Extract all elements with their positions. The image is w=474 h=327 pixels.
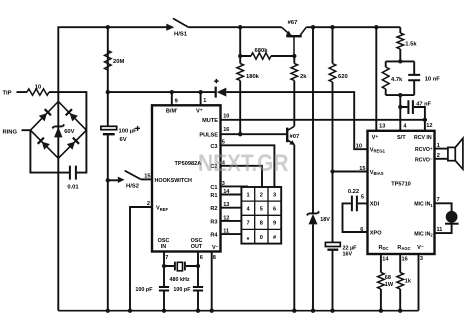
wire C1 column	[221, 185, 249, 187]
svg-text:480 kHz: 480 kHz	[169, 277, 189, 283]
resistor 620	[329, 64, 336, 82]
junction crystal left	[162, 264, 166, 268]
svg-text:XDI: XDI	[370, 202, 380, 208]
wire MIC IN loop	[435, 203, 452, 233]
wire PULSE net (U1 pin16 to Q07 base)	[221, 133, 287, 135]
junction ground rail / VREF branch	[128, 309, 132, 313]
op-amp U1 TP50982A dialer IC body	[152, 105, 221, 251]
svg-text:6: 6	[200, 255, 203, 261]
wire bridge bottom to ground rail	[57, 158, 59, 310]
junction S/T node / 47nF	[398, 105, 402, 109]
ground rail (V- bus)	[58, 310, 418, 312]
junction PULSE / 180k branch	[238, 132, 242, 136]
capacitor 10nF	[408, 75, 420, 80]
junction ground rail / OSC IN branch	[162, 309, 166, 313]
svg-text:180k: 180k	[246, 74, 260, 80]
svg-text:TP5710: TP5710	[391, 181, 411, 187]
svg-text:100 µF: 100 µF	[119, 128, 138, 134]
capacitor 100pF left	[159, 287, 169, 291]
junction S/T box top center	[398, 59, 402, 63]
junction ground rail / U1 V- pin8	[210, 309, 214, 313]
bridge diode upper-right (TIP to top)	[70, 113, 78, 121]
svg-text:OSC: OSC	[191, 238, 203, 244]
capacitor C 0.01	[70, 166, 76, 180]
svg-text:14: 14	[382, 257, 389, 263]
wire R2 row	[221, 207, 242, 209]
svg-text:16: 16	[223, 127, 229, 133]
wire VBIAS stub	[333, 171, 368, 173]
capacitor 100pF right	[193, 287, 203, 291]
svg-text:18V: 18V	[320, 217, 330, 223]
wire 2k branch vertical	[293, 56, 295, 126]
junction S/T box bottom center	[398, 93, 402, 97]
svg-text:PULSE: PULSE	[199, 132, 218, 138]
svg-text:V⁻: V⁻	[212, 245, 219, 251]
wire U1 pin 1 stub	[200, 92, 202, 105]
svg-text:H/S2: H/S2	[126, 184, 139, 190]
junction top rail / 18V branch	[311, 25, 315, 29]
svg-text:6: 6	[273, 207, 276, 213]
bridge rectifier frame	[30, 102, 86, 159]
capacitor 0.22 + XDI/XPO loop	[343, 203, 368, 232]
svg-text:5: 5	[361, 195, 364, 201]
svg-text:3: 3	[273, 192, 276, 198]
wire top rail right (Q67 collector to 1.5k)	[306, 26, 400, 28]
wire U2 pin 13 branch	[375, 27, 377, 131]
svg-text:47 nF: 47 nF	[416, 102, 431, 108]
svg-text:0.01: 0.01	[67, 185, 79, 191]
transistor Q07 (#07 pulse driver)	[286, 128, 288, 143]
svg-text:15: 15	[144, 173, 150, 179]
svg-text:RING: RING	[3, 130, 18, 136]
svg-text:RCVO⁺: RCVO⁺	[415, 147, 433, 153]
junction Q67 base / 2k top	[292, 54, 296, 58]
svg-text:RCVO⁻: RCVO⁻	[415, 157, 433, 163]
wire R3 row	[221, 220, 242, 222]
speaker LS1	[448, 147, 455, 160]
switch H/S1	[166, 24, 174, 31]
wire OSC IN branch	[163, 252, 165, 311]
svg-text:1.5k: 1.5k	[405, 41, 417, 47]
svg-text:MIC IN2: MIC IN2	[414, 231, 433, 237]
wire 1.5k / S-T branch	[399, 27, 401, 61]
resistor R 10 (tip series)	[27, 89, 49, 95]
junction crystal right	[196, 264, 200, 268]
svg-text:IN: IN	[161, 244, 166, 250]
svg-text:TIP: TIP	[3, 91, 12, 97]
resistor 180k	[237, 64, 244, 81]
svg-text:16: 16	[402, 257, 408, 263]
svg-text:1W: 1W	[385, 282, 394, 288]
wire MUTE net (U1 pin10 to RCV IN)	[221, 119, 425, 121]
svg-text:C1: C1	[210, 185, 217, 191]
crystal Y1 480kHz	[164, 265, 198, 267]
junction V+ net / pin9	[170, 90, 174, 94]
transistor Q67 (#67 PNP series pass)	[286, 35, 301, 37]
svg-text:B/M′: B/M′	[166, 108, 178, 114]
junction VBIAS / 620 branch	[330, 169, 334, 173]
wire V+ net (20M node to VREG1 of U2)	[108, 92, 368, 149]
resistor 680k	[251, 53, 271, 59]
svg-text:12: 12	[426, 123, 432, 129]
junction ground rail / 18V branch	[311, 309, 315, 313]
junction ground rail / H-S2 branch	[106, 309, 110, 313]
resistor 4.7k	[382, 67, 389, 89]
svg-text:9: 9	[273, 221, 276, 227]
svg-text:3: 3	[420, 256, 423, 262]
svg-text:0.22: 0.22	[348, 189, 359, 195]
bridge diode lower-right (to TIP node)	[67, 142, 75, 150]
diode D1 (supply steering)	[217, 88, 227, 97]
junction H/S2 tap	[106, 178, 110, 182]
svg-text:4.7k: 4.7k	[391, 77, 403, 83]
wire VREF to ground rail	[130, 207, 152, 311]
op-amp U2 TP5710 speech IC body	[368, 131, 435, 254]
capacitor 47nF	[400, 107, 425, 131]
svg-text:10: 10	[356, 144, 362, 150]
svg-text:5: 5	[260, 207, 263, 213]
wire 180k branch vertical	[239, 27, 241, 134]
svg-text:MUTE: MUTE	[202, 118, 218, 124]
svg-text:R2: R2	[210, 206, 217, 212]
svg-text:680k: 680k	[255, 48, 269, 54]
wire RCVO- stub	[435, 158, 448, 160]
junction top rail / pin13 branch	[374, 25, 378, 29]
svg-text:22 µF: 22 µF	[343, 245, 358, 251]
junction V+ net / pin1	[198, 90, 202, 94]
svg-text:VREF: VREF	[156, 206, 169, 212]
svg-text:VREG1: VREG1	[370, 147, 386, 153]
wire RCVO+ stub	[435, 148, 448, 150]
wire 620 / VBIAS branch vertical	[332, 27, 334, 311]
svg-text:7: 7	[246, 221, 249, 227]
svg-text:68: 68	[385, 275, 391, 281]
svg-text:XPO: XPO	[370, 230, 382, 236]
svg-text:OUT: OUT	[191, 244, 203, 250]
junction ground rail / RDC resistor	[379, 309, 383, 313]
junction top rail / 180k branch	[238, 25, 242, 29]
svg-text:13: 13	[379, 123, 385, 129]
wire 680k link	[240, 55, 294, 57]
svg-text:R1: R1	[210, 193, 217, 199]
svg-text:C3: C3	[210, 144, 217, 150]
wire S/T center to U2 pin4	[399, 95, 401, 131]
svg-text:2: 2	[147, 201, 150, 207]
bridge diode upper-left (RING to top)	[39, 113, 47, 121]
wire U1 pin 9 stub	[171, 92, 173, 105]
svg-text:RAGC: RAGC	[397, 245, 410, 251]
svg-text:1: 1	[203, 98, 206, 104]
resistor 1.5k	[397, 33, 404, 49]
svg-text:100 pF: 100 pF	[173, 287, 191, 293]
junction RCV IN / MUTE	[423, 118, 427, 122]
junction ground rail / Q07 emitter	[292, 309, 296, 313]
svg-text:RCV IN: RCV IN	[414, 135, 432, 141]
junction 680k left	[238, 54, 242, 58]
svg-text:7: 7	[165, 255, 168, 261]
wire OSC OUT branch	[197, 252, 199, 311]
wire 20M branch vertical	[107, 27, 109, 311]
svg-text:R3: R3	[210, 219, 217, 225]
keypad matrix 4x3	[241, 187, 281, 244]
svg-text:MIC IN1: MIC IN1	[414, 202, 433, 208]
svg-text:0: 0	[260, 235, 263, 241]
wire R1 row	[221, 194, 242, 196]
microphone MIC1	[446, 211, 458, 223]
svg-text:100 pF: 100 pF	[135, 287, 153, 293]
svg-text:9: 9	[175, 98, 178, 104]
svg-text:10: 10	[223, 113, 229, 119]
wire RING to bridge left node	[22, 129, 31, 131]
label + (D1 polarity)	[214, 79, 218, 83]
svg-text:R4: R4	[210, 233, 218, 239]
svg-text:10 nF: 10 nF	[425, 77, 441, 83]
resistor 20M	[105, 51, 112, 70]
svg-text:6V: 6V	[120, 137, 127, 143]
svg-text:2k: 2k	[300, 74, 307, 80]
svg-text:1: 1	[246, 192, 249, 198]
junction V+ net / 20M branch	[106, 90, 110, 94]
zener D 60V (bridge center)	[52, 125, 64, 129]
wire C2 column	[221, 166, 263, 187]
svg-text:NEXT.GR: NEXT.GR	[198, 150, 289, 177]
svg-text:8: 8	[260, 221, 263, 227]
zener D 18V	[307, 212, 319, 216]
capacitor 100uF 6V electrolytic	[101, 126, 117, 129]
svg-text:H/S1: H/S1	[174, 31, 188, 37]
svg-text:16V: 16V	[343, 252, 353, 258]
bridge diode lower-left (to RING node)	[42, 142, 50, 150]
wire top rail left + drop to bridge top	[58, 27, 166, 101]
svg-text:VBIAS: VBIAS	[370, 170, 384, 176]
wire R4 row	[221, 233, 242, 235]
svg-text:*: *	[247, 237, 250, 244]
wire U2 V- pin 3 to ground rail	[418, 254, 420, 311]
junction top rail / 20M	[106, 25, 110, 29]
junction top rail / 620 branch	[330, 25, 334, 29]
svg-text:#07: #07	[290, 134, 300, 140]
wire RAGC branch	[399, 254, 401, 311]
svg-text:OSC: OSC	[158, 238, 170, 244]
svg-text:V⁺: V⁺	[372, 134, 379, 141]
resistor 2k	[291, 64, 298, 81]
svg-text:S/T: S/T	[397, 135, 406, 141]
svg-text:V⁺: V⁺	[196, 107, 203, 114]
wire TIP to bridge right node	[17, 92, 87, 130]
svg-text:1k: 1k	[405, 278, 412, 284]
svg-text:60V: 60V	[64, 129, 74, 135]
wire top rail mid (H/S1 to Q67 emitter)	[189, 26, 282, 28]
svg-text:RDC: RDC	[378, 245, 388, 251]
svg-text:10: 10	[35, 84, 41, 90]
switch H/S2	[108, 179, 118, 181]
svg-text:HOOKSWITCH: HOOKSWITCH	[155, 178, 193, 184]
wire U1 V- pin 8 branch	[211, 252, 213, 311]
junction ground rail / OSC OUT branch	[196, 309, 200, 313]
capacitor 22uF 16V (electrolytic)	[325, 242, 340, 246]
svg-text:#67: #67	[288, 20, 298, 26]
wire C3 column	[221, 145, 275, 187]
svg-text:7: 7	[437, 197, 440, 203]
label + (100uF polarity)	[135, 126, 140, 131]
junction ground rail / 22uF branch	[330, 309, 334, 313]
wire 18V branch vertical	[312, 27, 314, 311]
wire 0.01 branch (across AC nodes)	[30, 130, 86, 172]
svg-text:V⁻: V⁻	[417, 245, 424, 251]
wire Q07 emitter to ground rail	[293, 145, 295, 311]
wire bridge center vertical	[57, 102, 59, 159]
svg-text:8: 8	[213, 255, 216, 261]
wire RDC branch	[380, 254, 382, 311]
svg-text:20M: 20M	[113, 59, 124, 65]
svg-text:2: 2	[260, 192, 263, 198]
svg-text:620: 620	[338, 74, 348, 80]
resistor 68 1W	[378, 273, 385, 290]
resistor 1k	[397, 273, 404, 290]
S/T parallel network frame	[386, 61, 415, 95]
junction ground rail / RAGC resistor	[398, 309, 402, 313]
